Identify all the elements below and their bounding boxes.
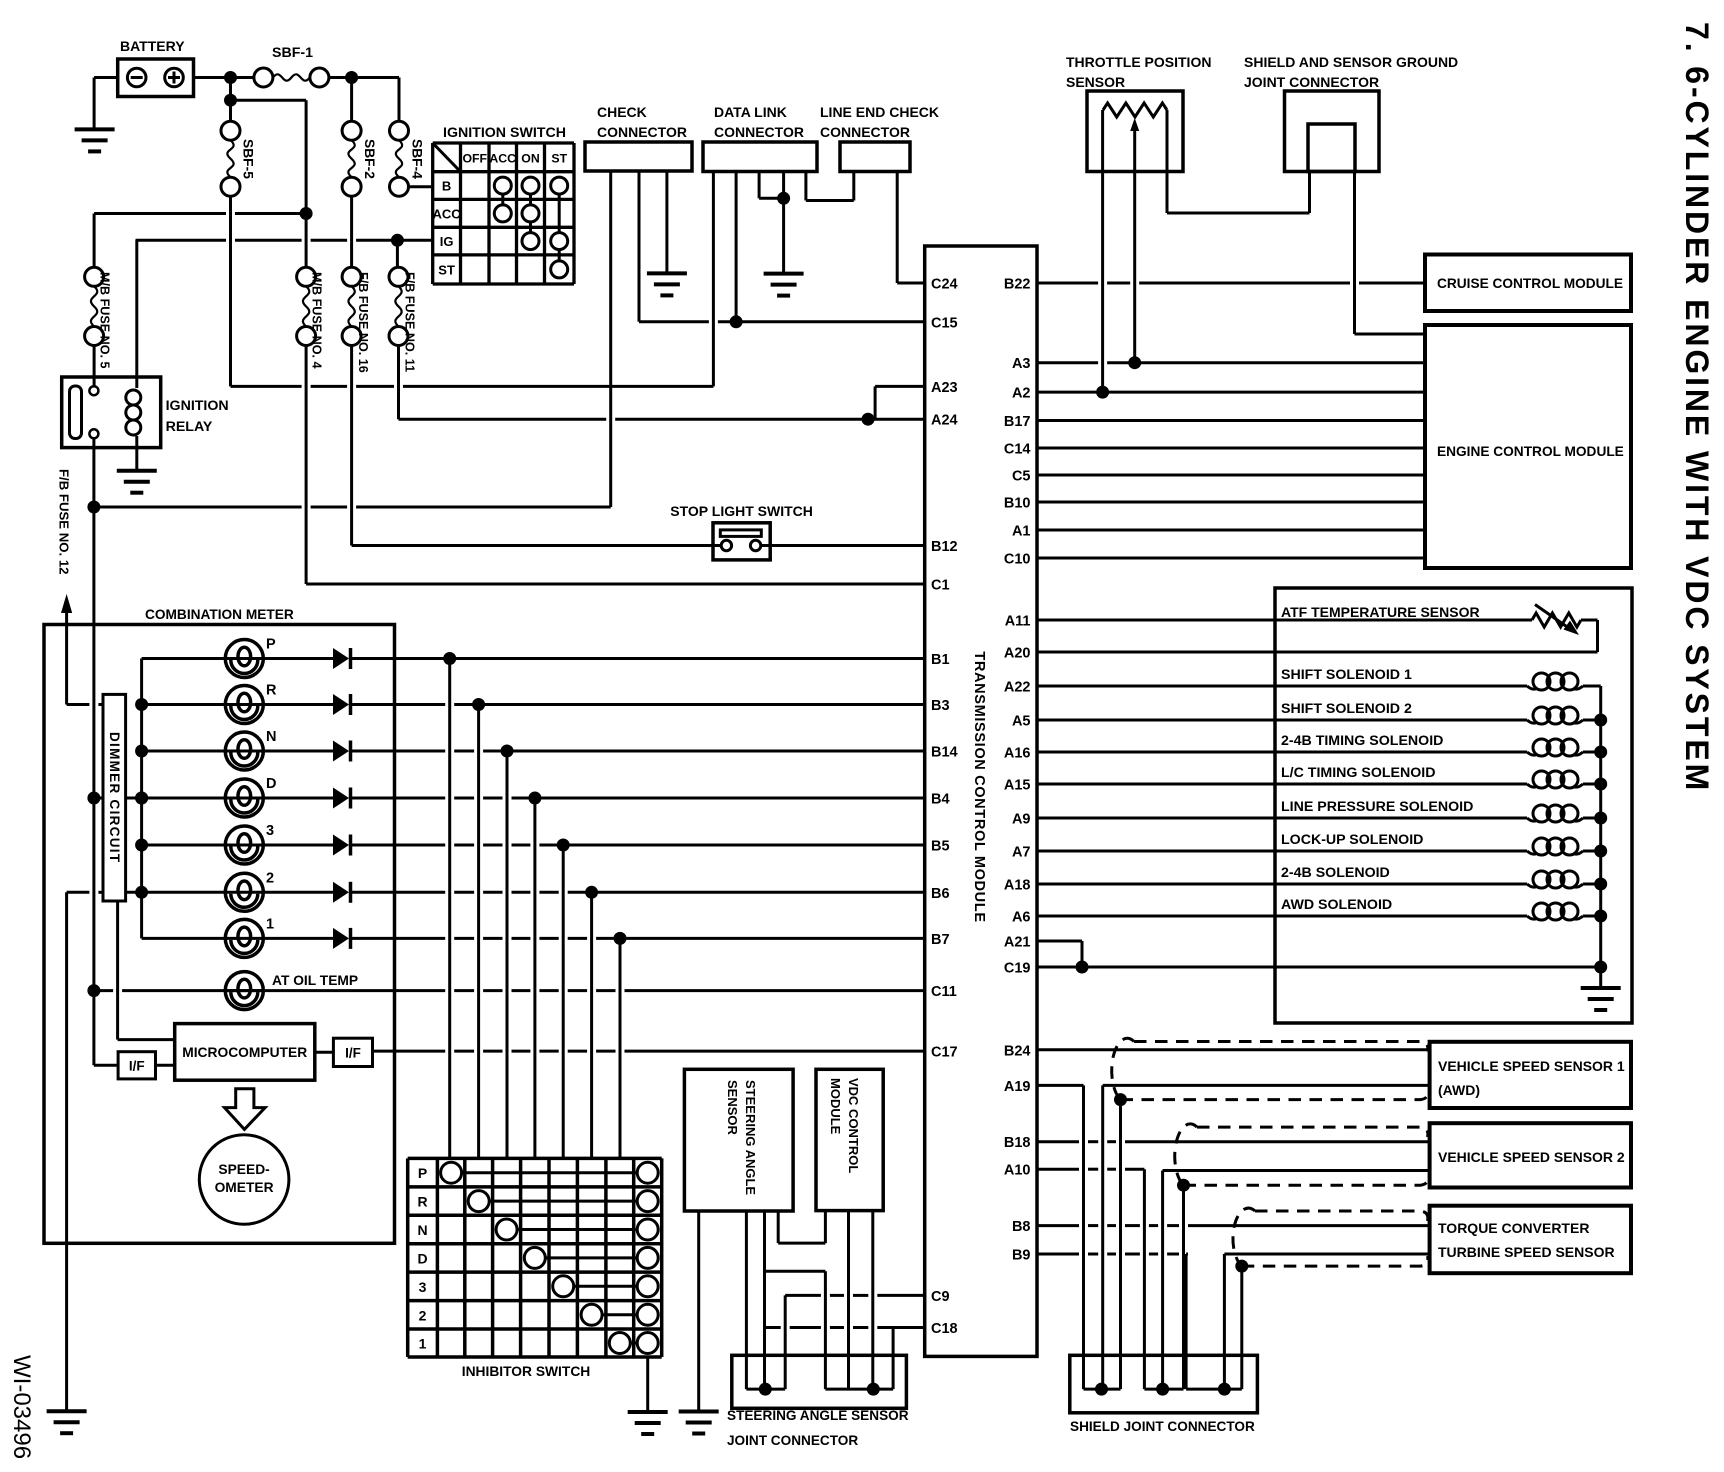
shield drain torque converter sensor <box>1240 1266 1243 1389</box>
svg-text:C17: C17 <box>931 1045 958 1061</box>
wire to lock-up solenoid <box>1037 850 1527 853</box>
svg-text:SBF-2: SBF-2 <box>362 139 377 179</box>
node F/B fuse No.11 feed <box>391 234 404 247</box>
inhibitor contact R <box>479 1200 648 1203</box>
wire B22 to cruise control module <box>1037 282 1098 285</box>
wire TPS pin1 to A2 <box>1101 110 1104 392</box>
indicator lamp D <box>142 797 333 800</box>
svg-text:B7: B7 <box>931 932 950 948</box>
data link connector <box>703 142 817 172</box>
wire vehicle speed sensor 1 signal via joint <box>1103 1084 1430 1087</box>
wire to shift solenoid 2 <box>1037 719 1527 722</box>
shielded cable VSS2 <box>1197 1127 1428 1137</box>
fuse SBF-4 <box>398 78 401 122</box>
indicator lamp 3 <box>142 844 333 847</box>
svg-text:C5: C5 <box>1012 469 1031 485</box>
wire C11 to TCM <box>225 989 445 992</box>
svg-text:JOINT CONNECTOR: JOINT CONNECTOR <box>727 1433 858 1448</box>
wire check connector pin3 to ground <box>665 171 668 273</box>
wire 3 to inhibitor switch <box>562 845 565 1158</box>
wire 1 to inhibitor switch <box>619 938 622 1158</box>
svg-text:OMETER: OMETER <box>215 1180 274 1195</box>
wire SBF-5 to diagnosis connectors <box>229 196 232 386</box>
shield drain VSS1 <box>1119 1100 1122 1390</box>
svg-text:STEERING ANGLE SENSOR: STEERING ANGLE SENSOR <box>727 1408 909 1423</box>
speedometer drive arrow <box>225 1089 266 1130</box>
svg-text:D: D <box>417 1250 427 1266</box>
svg-text:1: 1 <box>266 916 274 932</box>
svg-text:C11: C11 <box>931 984 957 1000</box>
fuse SBF-1 <box>254 68 273 87</box>
svg-text:STEERING ANGLE: STEERING ANGLE <box>743 1080 758 1195</box>
svg-text:C1: C1 <box>931 578 950 594</box>
svg-text:A24: A24 <box>931 413 958 429</box>
svg-text:A22: A22 <box>1004 680 1031 696</box>
svg-text:B6: B6 <box>931 886 950 902</box>
inhibitor contact 1 <box>620 1342 648 1345</box>
wire SBF-4 to ignition switch B <box>409 185 433 188</box>
svg-text:VEHICLE SPEED SENSOR 2: VEHICLE SPEED SENSOR 2 <box>1438 1149 1625 1165</box>
wire battery to SBF-1 <box>194 76 254 79</box>
battery <box>118 59 194 97</box>
wire C15 <box>639 320 709 323</box>
wire SAS pin3 <box>763 1211 766 1389</box>
wire B12 from F/B fuse No.16 via stop light switch <box>350 346 353 546</box>
wire N to inhibitor switch <box>506 751 509 1158</box>
shield and sensor ground joint connector <box>1285 91 1380 172</box>
indicator lamp N <box>142 750 333 753</box>
svg-text:R: R <box>266 683 277 699</box>
svg-text:BATTERY: BATTERY <box>120 38 185 54</box>
ground (data link connector) <box>764 272 804 276</box>
svg-text:IGNITION: IGNITION <box>166 398 229 414</box>
wire C1 from M/B fuse No.4 <box>305 346 308 585</box>
svg-text:A21: A21 <box>1004 935 1031 951</box>
wire data link pin3 <box>758 172 761 199</box>
solenoid 2-4B SOLENOID <box>1533 871 1550 888</box>
svg-text:SPEED-: SPEED- <box>218 1162 270 1177</box>
svg-text:IG: IG <box>440 234 454 249</box>
svg-text:SHIFT SOLENOID 1: SHIFT SOLENOID 1 <box>1281 667 1412 683</box>
solenoid SHIFT SOLENOID 2 <box>1533 707 1550 724</box>
svg-text:SHIELD JOINT CONNECTOR: SHIELD JOINT CONNECTOR <box>1070 1419 1255 1434</box>
svg-text:A20: A20 <box>1004 646 1031 662</box>
wire to shift solenoid 1 <box>1037 685 1527 688</box>
svg-text:A7: A7 <box>1012 845 1031 861</box>
wire to awd solenoid <box>1037 915 1527 918</box>
svg-text:C18: C18 <box>931 1321 958 1337</box>
svg-text:B22: B22 <box>1004 277 1031 293</box>
node drop 1 <box>614 932 627 945</box>
svg-text:ATF TEMPERATURE SENSOR: ATF TEMPERATURE SENSOR <box>1281 604 1480 620</box>
ground (steering angle sensor) <box>679 1410 719 1414</box>
node drop 3 <box>557 839 570 852</box>
wire dimmer 2 row to ground <box>67 891 90 894</box>
vehicle speed sensor 2 <box>1430 1123 1631 1187</box>
wire dimmer to microcomputer <box>116 901 119 1040</box>
svg-text:CONNECTOR: CONNECTOR <box>820 124 910 140</box>
svg-text:MODULE: MODULE <box>828 1078 843 1135</box>
wire A10 to shield joint connector <box>1037 1168 1079 1171</box>
svg-text:2: 2 <box>266 870 274 886</box>
wire TPS pin3 to joint connector <box>1166 110 1169 213</box>
svg-text:3: 3 <box>266 823 274 839</box>
diode 1 <box>333 928 349 949</box>
svg-text:LINE PRESSURE SOLENOID: LINE PRESSURE SOLENOID <box>1281 799 1473 815</box>
wire A19 to shield joint connector <box>1037 1084 1084 1087</box>
wire SAS pin1 to ground <box>697 1211 700 1412</box>
wire SAS-VDC link <box>765 1270 826 1273</box>
svg-text:ST: ST <box>438 262 455 277</box>
wire M/B fuse No.5 to ignition relay <box>93 346 96 391</box>
svg-text:AT OIL TEMP: AT OIL TEMP <box>272 973 358 988</box>
svg-text:B9: B9 <box>1012 1248 1031 1264</box>
svg-text:3: 3 <box>419 1279 427 1295</box>
svg-text:B14: B14 <box>931 745 958 761</box>
wire data link pin1 to diagnosis B+ line <box>712 172 715 387</box>
node A2 TPS tap <box>1096 386 1109 399</box>
diode D <box>333 788 349 809</box>
wire B18 to vehicle speed sensor 2 <box>1037 1140 1079 1143</box>
wire B10 to ECM <box>1037 501 1425 504</box>
svg-text:AWD SOLENOID: AWD SOLENOID <box>1281 897 1392 913</box>
wire A24 from F/B fuse No.11 <box>397 346 400 420</box>
wire SAS pin2 to joint connector <box>745 1211 748 1389</box>
svg-text:B1: B1 <box>931 652 950 668</box>
wire to line pressure solenoid <box>1037 817 1527 820</box>
svg-text:2-4B SOLENOID: 2-4B SOLENOID <box>1281 865 1390 881</box>
wire check connector pin1 down to B+ line <box>609 171 612 507</box>
svg-text:DIMMER CIRCUIT: DIMMER CIRCUIT <box>107 732 122 863</box>
svg-text:7. 6-CYLINDER ENGINE WITH VDC: 7. 6-CYLINDER ENGINE WITH VDC SYSTEM <box>1679 22 1715 793</box>
inhibitor contact 2 <box>592 1313 648 1316</box>
solenoid common return <box>1599 686 1602 988</box>
svg-text:N: N <box>266 729 276 745</box>
ground (ignition relay) <box>117 469 157 473</box>
transmission control module <box>925 246 1037 1356</box>
ground (solenoid return) <box>1581 986 1621 990</box>
wire B8 to torque converter speed sensor <box>1037 1224 1079 1227</box>
svg-text:2-4B TIMING SOLENOID: 2-4B TIMING SOLENOID <box>1281 733 1443 749</box>
node drop N <box>501 745 514 758</box>
throttle position sensor <box>1087 91 1183 172</box>
wire A23 jumper to A24 <box>875 385 925 388</box>
ignition relay coil <box>135 240 138 388</box>
wire C14 to ECM <box>1037 447 1425 450</box>
wire P to inhibitor switch <box>448 659 451 1159</box>
wire data link pin2 to C15 <box>735 172 738 322</box>
wire C10 to ECM <box>1037 557 1425 560</box>
svg-text:P: P <box>266 637 276 653</box>
svg-text:B8: B8 <box>1012 1219 1031 1235</box>
steering angle sensor joint connector <box>732 1355 907 1408</box>
wire to 2-4b timing solenoid <box>1037 751 1527 754</box>
svg-text:ACC: ACC <box>489 151 516 165</box>
svg-text:A18: A18 <box>1004 878 1031 894</box>
shield joint connector <box>1070 1355 1258 1413</box>
wire A2 to ECM / TPS <box>1037 391 1425 394</box>
svg-text:RELAY: RELAY <box>166 419 213 435</box>
svg-text:C19: C19 <box>1004 961 1031 977</box>
svg-text:P: P <box>418 1165 427 1181</box>
svg-text:A3: A3 <box>1012 356 1031 372</box>
transmission assembly box <box>1275 588 1632 1023</box>
svg-text:N: N <box>417 1222 427 1238</box>
svg-text:L/C TIMING SOLENOID: L/C TIMING SOLENOID <box>1281 765 1435 781</box>
svg-text:A9: A9 <box>1012 812 1031 828</box>
wire VDC pin3 to joint connector <box>871 1211 874 1390</box>
wire A1 to ECM <box>1037 529 1425 532</box>
node battery junction <box>224 71 237 84</box>
ATF temperature sensor (thermistor) <box>1532 613 1581 627</box>
indicator lamp 1 <box>142 937 333 940</box>
wire C5 to ECM <box>1037 474 1425 477</box>
wire C9 <box>785 1294 821 1297</box>
svg-text:JOINT CONNECTOR: JOINT CONNECTOR <box>1244 74 1379 90</box>
svg-text:VDC CONTROL: VDC CONTROL <box>846 1078 861 1173</box>
wire relay output into meter <box>92 507 95 1065</box>
svg-text:A11: A11 <box>1005 614 1031 630</box>
fuse M/B FUSE NO. 4 <box>297 267 316 286</box>
wire check connector pin2 to C15 <box>638 171 641 322</box>
solenoid 2-4B TIMING SOLENOID <box>1533 739 1550 756</box>
wire C18 <box>765 1326 781 1329</box>
svg-text:SENSOR: SENSOR <box>725 1080 740 1136</box>
solenoid L/C TIMING SOLENOID <box>1533 771 1550 788</box>
wire 2 to inhibitor switch <box>590 892 593 1158</box>
svg-text:SHIELD AND SENSOR GROUND: SHIELD AND SENSOR GROUND <box>1244 54 1458 70</box>
svg-text:A16: A16 <box>1004 746 1031 762</box>
svg-text:IGNITION SWITCH: IGNITION SWITCH <box>443 125 566 141</box>
solenoid LOCK-UP SOLENOID <box>1533 838 1550 855</box>
svg-text:A2: A2 <box>1012 386 1031 402</box>
wire lamp 1 to TCM <box>351 937 445 940</box>
wire D to inhibitor switch <box>533 798 536 1158</box>
svg-text:B: B <box>442 179 451 194</box>
VDC control module <box>816 1069 883 1210</box>
wire torque converter sensor signal via joint <box>1224 1253 1429 1256</box>
wire C19 solenoid ground return <box>1037 966 1601 969</box>
svg-text:CONNECTOR: CONNECTOR <box>714 124 804 140</box>
indicator lamp 2 <box>142 891 333 894</box>
inhibitor contact P <box>451 1171 648 1174</box>
svg-text:C9: C9 <box>931 1289 950 1305</box>
interface I/F left <box>94 1064 118 1067</box>
svg-text:B3: B3 <box>931 698 950 714</box>
solenoid SHIFT SOLENOID 1 <box>1533 673 1550 690</box>
svg-text:CONNECTOR: CONNECTOR <box>597 124 687 140</box>
svg-text:WI-03496: WI-03496 <box>8 1355 35 1459</box>
diode R <box>333 694 349 715</box>
svg-text:THROTTLE POSITION: THROTTLE POSITION <box>1066 54 1211 70</box>
svg-text:1: 1 <box>419 1336 427 1352</box>
svg-text:B24: B24 <box>1004 1043 1031 1059</box>
fuse F/B FUSE NO. 11 <box>389 267 408 286</box>
wire data link pin4 to ground <box>782 172 785 274</box>
svg-text:ON: ON <box>521 151 540 165</box>
svg-text:M/B FUSE NO. 5: M/B FUSE NO. 5 <box>98 272 112 369</box>
vehicle speed sensor 1 (AWD) <box>1430 1042 1631 1108</box>
svg-text:TORQUE CONVERTER: TORQUE CONVERTER <box>1438 1220 1589 1236</box>
svg-text:A19: A19 <box>1004 1079 1031 1095</box>
combination meter <box>44 625 395 1244</box>
lamp bus <box>140 659 143 939</box>
wire C17 to TCM <box>373 1050 446 1053</box>
wire B17 to ECM <box>1037 419 1425 422</box>
wire inhibitor common to ground <box>646 1357 649 1412</box>
svg-text:TRANSMISSION CONTROL MODULE: TRANSMISSION CONTROL MODULE <box>971 651 987 922</box>
stop light switch <box>713 523 770 560</box>
ground (inhibitor switch) <box>628 1410 668 1414</box>
svg-text:SENSOR: SENSOR <box>1066 74 1125 90</box>
ignition switch contacts <box>501 186 504 214</box>
svg-text:F/B FUSE NO. 16: F/B FUSE NO. 16 <box>356 272 370 373</box>
svg-text:A10: A10 <box>1004 1163 1031 1179</box>
shielded cable torque converter sensor <box>1255 1211 1428 1221</box>
svg-text:ST: ST <box>551 151 567 165</box>
shielded cable VSS1 <box>1134 1042 1428 1052</box>
wire to 2-4b solenoid <box>1037 883 1527 886</box>
cruise control module <box>1425 255 1631 312</box>
microcomputer <box>175 1024 315 1081</box>
svg-text:B17: B17 <box>1004 414 1031 430</box>
svg-text:2: 2 <box>419 1307 427 1323</box>
wire VDC pin2 to joint connector <box>847 1211 850 1390</box>
svg-text:F/B FUSE NO. 11: F/B FUSE NO. 11 <box>403 272 417 372</box>
svg-text:C24: C24 <box>931 277 958 293</box>
svg-text:VEHICLE SPEED SENSOR 1: VEHICLE SPEED SENSOR 1 <box>1438 1058 1625 1074</box>
wire SBF-1 to SBF-4 column <box>329 76 399 79</box>
ignition switch table <box>431 143 434 284</box>
wire ATF sensor to A20 <box>1581 619 1598 622</box>
wire dimmer D row <box>94 797 103 800</box>
fuse SBF-2 <box>350 78 353 122</box>
wire feed to SBF-5 / M-B fuses <box>229 78 232 122</box>
wire vehicle speed sensor 2 signal via joint <box>1163 1169 1430 1172</box>
svg-text:C15: C15 <box>931 315 958 331</box>
solenoid LINE PRESSURE SOLENOID <box>1533 805 1550 822</box>
svg-text:B4: B4 <box>931 792 950 808</box>
svg-text:I/F: I/F <box>129 1059 145 1074</box>
fuse F/B FUSE NO. 16 <box>350 196 353 267</box>
svg-text:LINE END CHECK: LINE END CHECK <box>820 104 939 120</box>
svg-text:A5: A5 <box>1012 714 1031 730</box>
diode 2 <box>333 882 349 903</box>
svg-text:SBF-4: SBF-4 <box>410 139 425 179</box>
svg-text:DATA LINK: DATA LINK <box>714 104 787 120</box>
lamp AT OIL TEMP <box>225 972 263 1010</box>
engine control module <box>1425 325 1631 568</box>
wire lamp 3 to TCM <box>351 844 445 847</box>
svg-text:B18: B18 <box>1004 1135 1031 1151</box>
node drop R <box>472 698 485 711</box>
svg-text:MICROCOMPUTER: MICROCOMPUTER <box>182 1045 307 1060</box>
svg-text:ENGINE CONTROL MODULE: ENGINE CONTROL MODULE <box>1437 444 1624 459</box>
torque converter turbine speed sensor <box>1430 1206 1631 1274</box>
svg-text:A1: A1 <box>1012 524 1031 540</box>
wire M/B fuse No.5 feed <box>94 212 226 215</box>
wire SAS pin4 to VDC <box>777 1211 780 1243</box>
wire lamp 2 to TCM <box>351 891 445 894</box>
wire joint connector left pin <box>1308 172 1311 214</box>
battery B+ wire to ground <box>94 76 118 79</box>
wire to l/c timing solenoid <box>1037 783 1527 786</box>
ignition relay <box>62 377 161 448</box>
steering angle sensor <box>684 1069 793 1211</box>
svg-text:INHIBITOR SWITCH: INHIBITOR SWITCH <box>462 1364 591 1379</box>
inhibitor contact D <box>535 1256 648 1259</box>
wire AT OIL TEMP lamp <box>94 989 113 992</box>
speedometer <box>199 1135 289 1225</box>
wire F/B fuse No.12 feed (arrow up) <box>67 703 90 706</box>
svg-text:(AWD): (AWD) <box>1438 1082 1480 1098</box>
inhibitor switch <box>406 1158 410 1357</box>
wire lamp N to TCM <box>351 750 445 753</box>
svg-text:A15: A15 <box>1004 778 1031 794</box>
svg-text:SBF-1: SBF-1 <box>272 45 313 61</box>
node M/B fuse No.4 top feed <box>300 207 313 220</box>
indicator lamp P <box>142 657 333 660</box>
diode N <box>333 741 349 762</box>
shield drain VSS2 <box>1182 1185 1185 1389</box>
wire IG row to ignition switch <box>136 239 227 242</box>
svg-text:ACC: ACC <box>433 206 462 221</box>
ground (battery) <box>75 127 115 131</box>
ground (combination meter) <box>47 1409 87 1413</box>
line end check connector <box>840 142 910 172</box>
solenoid AWD SOLENOID <box>1533 903 1550 920</box>
interface I/F right <box>315 1051 334 1054</box>
dimmer circuit <box>103 694 126 901</box>
wire lamp R to TCM <box>351 703 445 706</box>
inhibitor contact 3 <box>563 1285 648 1288</box>
svg-text:B12: B12 <box>931 539 958 555</box>
wire line end check to C24 <box>896 172 899 284</box>
svg-text:SBF-5: SBF-5 <box>241 139 256 179</box>
potentiometer (TPS) <box>1103 103 1167 117</box>
wire relay contact to B+ distribution <box>92 438 95 507</box>
svg-text:COMBINATION METER: COMBINATION METER <box>145 607 294 622</box>
wire B9 to shield joint connector <box>1037 1253 1079 1256</box>
svg-text:C14: C14 <box>1004 442 1031 458</box>
svg-text:B5: B5 <box>931 839 950 855</box>
indicator lamp R <box>142 703 333 706</box>
TPS wiper arrow <box>1130 118 1139 131</box>
svg-text:TURBINE SPEED SENSOR: TURBINE SPEED SENSOR <box>1438 1244 1615 1260</box>
diode P <box>333 648 349 669</box>
svg-text:M/B FUSE NO. 4: M/B FUSE NO. 4 <box>310 272 324 369</box>
svg-text:A6: A6 <box>1012 910 1031 926</box>
svg-text:CRUISE CONTROL MODULE: CRUISE CONTROL MODULE <box>1437 276 1623 291</box>
node SBF-2 tap <box>345 71 358 84</box>
wire R to inhibitor switch <box>477 705 480 1159</box>
svg-text:A23: A23 <box>931 380 958 396</box>
wire joint connector right pin to ECM <box>1353 172 1356 335</box>
fuse M/B FUSE NO. 5 <box>85 267 104 286</box>
node drop 2 <box>585 886 598 899</box>
wire A21 jog to C19 <box>1037 940 1082 943</box>
ground (check connector) <box>647 271 687 275</box>
node A3 TPS tap <box>1128 356 1141 369</box>
node drop P <box>443 652 456 665</box>
svg-text:STOP LIGHT SWITCH: STOP LIGHT SWITCH <box>670 503 813 519</box>
svg-text:R: R <box>417 1194 427 1210</box>
inhibitor contact N <box>507 1228 648 1231</box>
svg-text:C10: C10 <box>1004 552 1031 568</box>
svg-text:OFF: OFF <box>462 151 487 165</box>
svg-text:LOCK-UP SOLENOID: LOCK-UP SOLENOID <box>1281 832 1423 848</box>
wire data link pin5 to line end check <box>804 172 807 201</box>
